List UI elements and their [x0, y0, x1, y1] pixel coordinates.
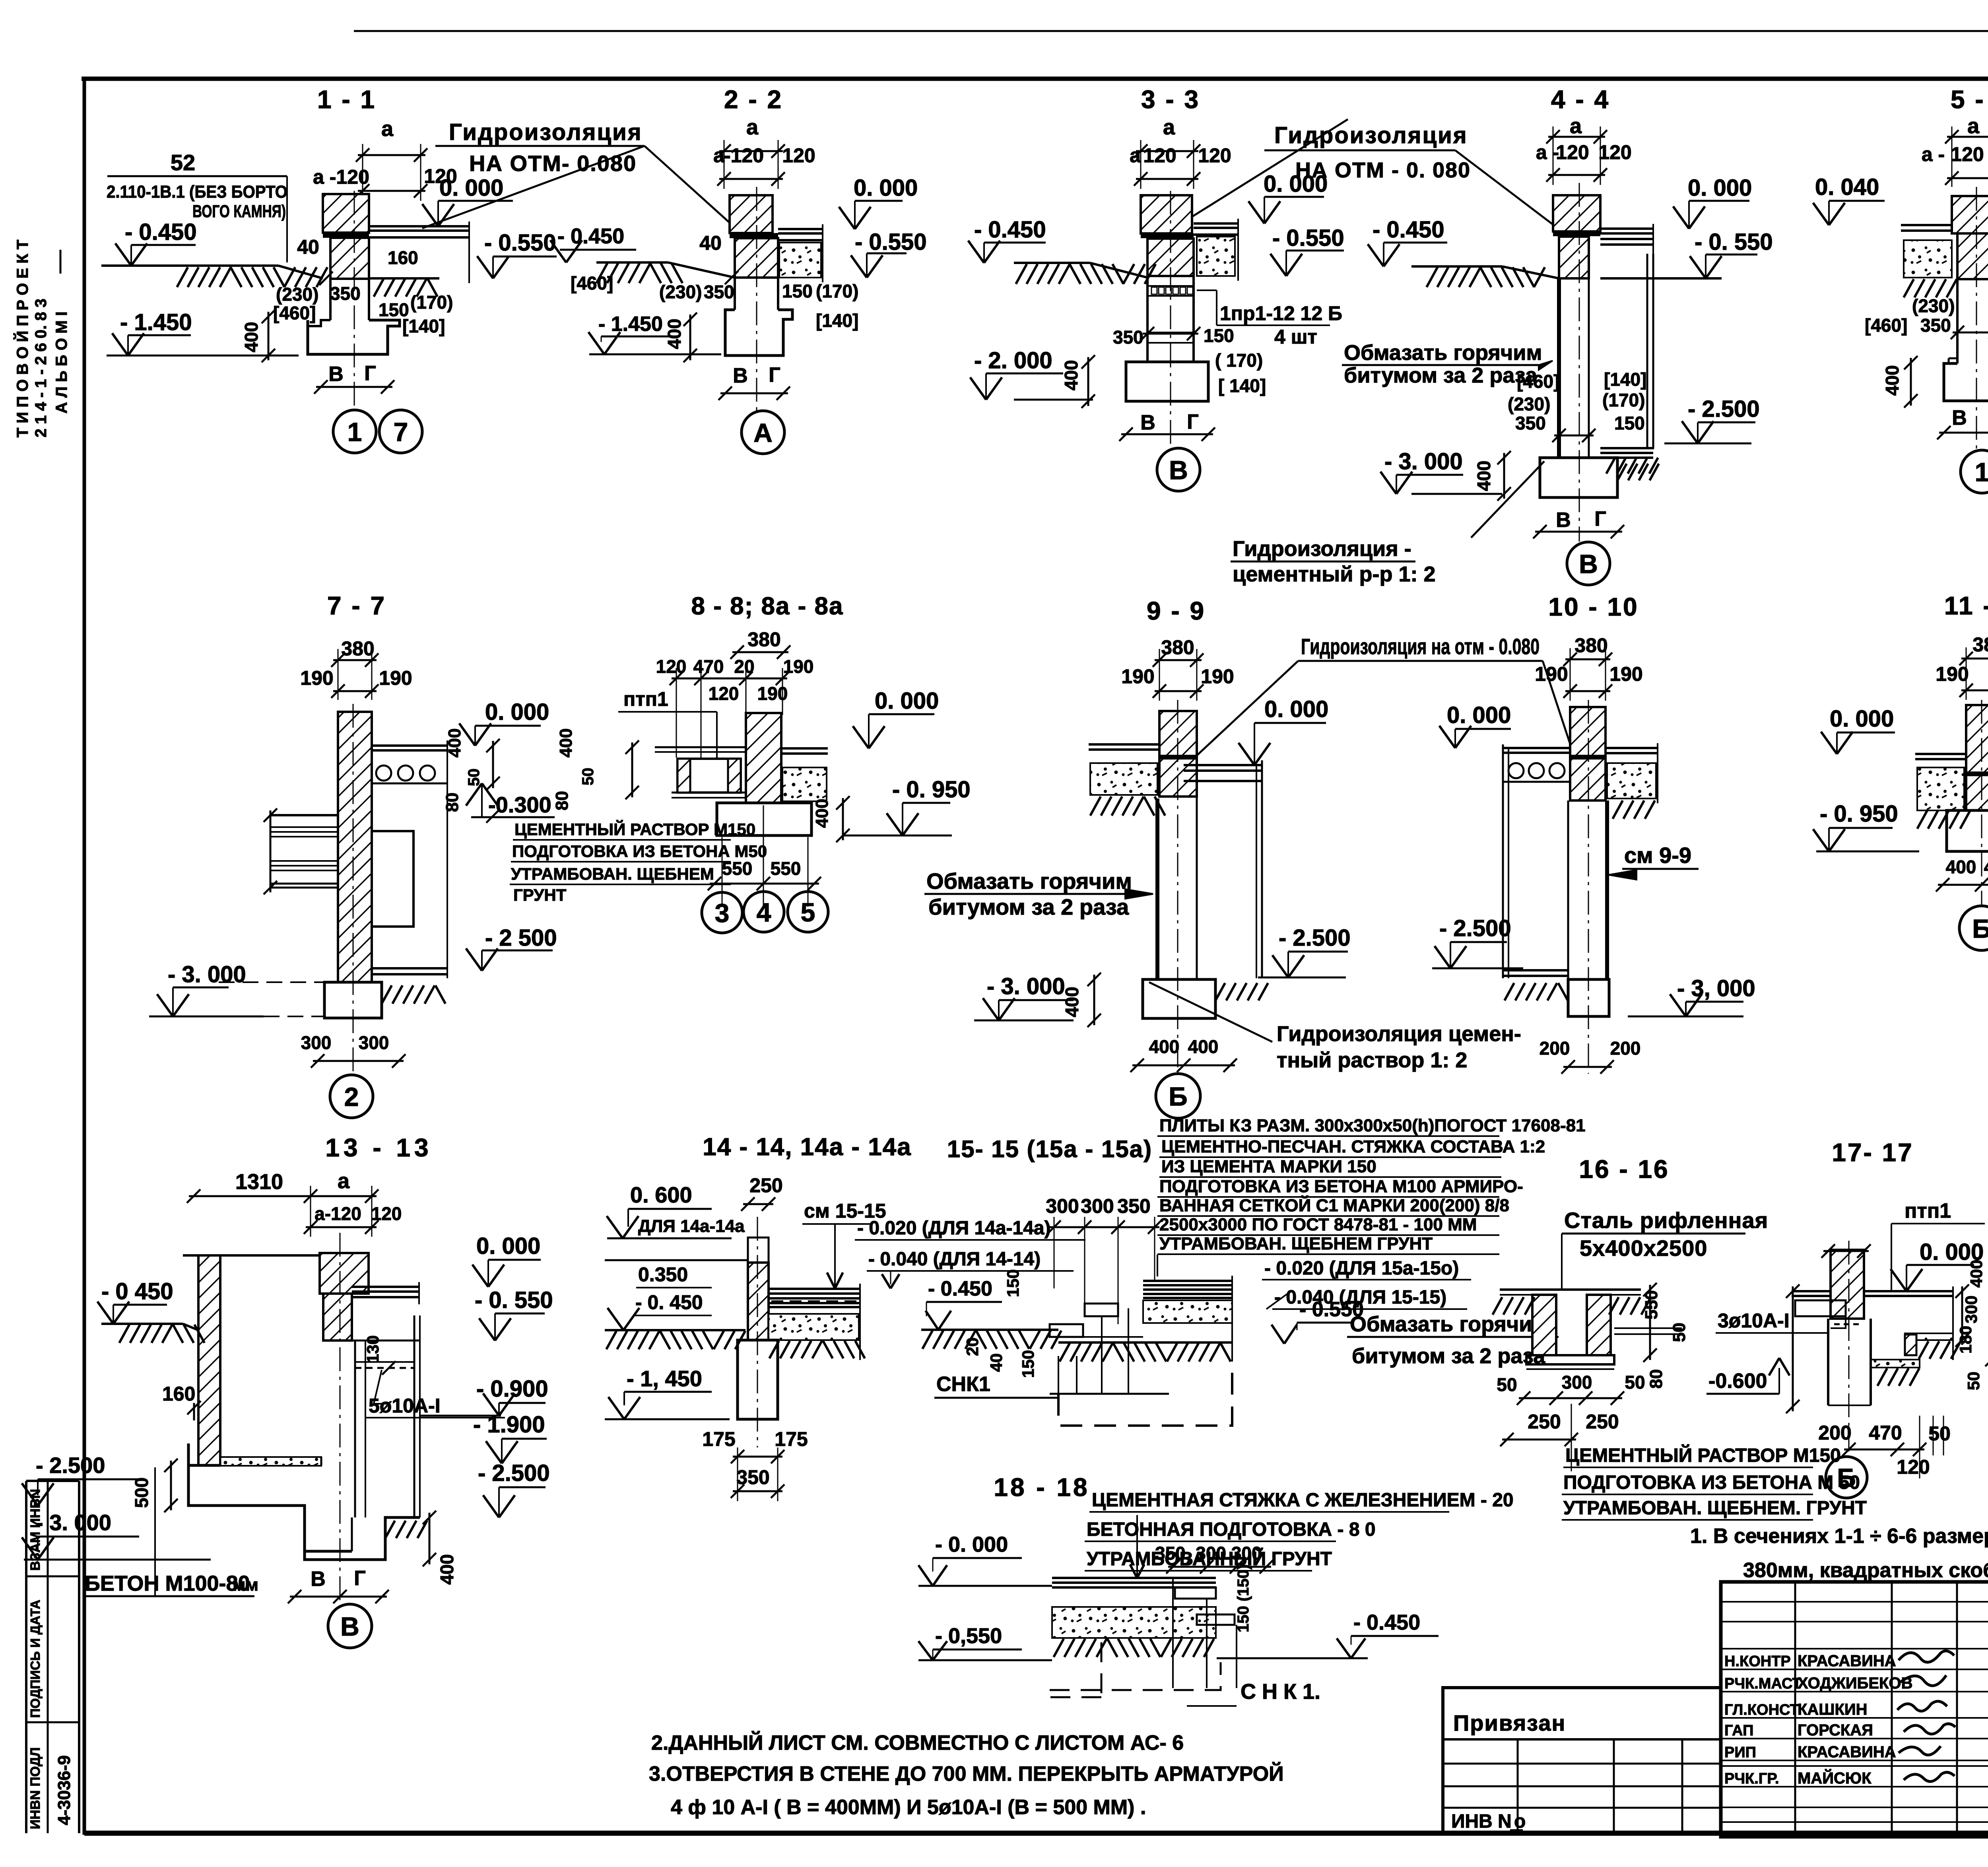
svg-text:В: В	[1952, 406, 1967, 429]
svg-text:5ø10А-I: 5ø10А-I	[369, 1395, 441, 1417]
svg-text:350: 350	[704, 282, 734, 302]
svg-text:400: 400	[1062, 987, 1082, 1017]
1-1 level -1.450 left	[128, 334, 191, 336]
4-4 footing	[1540, 458, 1617, 497]
svg-text:- 1.900: - 1.900	[473, 1412, 545, 1438]
svg-text:ГРУНТ: ГРУНТ	[513, 886, 567, 904]
8-8 right slab concrete	[781, 747, 828, 750]
svg-text:250: 250	[1586, 1410, 1619, 1433]
18-18 dashed box	[1050, 1642, 1101, 1697]
svg-text:5 - 5: 5 - 5	[1951, 85, 1988, 114]
svg-text:КРАСАВИНА: КРАСАВИНА	[1798, 1743, 1896, 1761]
5-5 ground hatch under slabs	[1904, 279, 1957, 297]
svg-text:3ø10А-I: 3ø10А-I	[1718, 1309, 1790, 1332]
svg-text:см 9-9: см 9-9	[1624, 843, 1691, 868]
svg-text:400: 400	[437, 1554, 457, 1585]
svg-text:битумом за 2 раза: битумом за 2 раза	[928, 894, 1129, 919]
svg-text:2: 2	[344, 1082, 359, 1111]
svg-text:400: 400	[241, 322, 262, 352]
10-10 left channel wall	[1502, 744, 1504, 978]
section 8-8	[510, 593, 971, 933]
svg-text:500: 500	[131, 1477, 152, 1508]
svg-text:150: 150	[1004, 1269, 1022, 1297]
svg-text:160: 160	[162, 1383, 195, 1405]
svg-text:120: 120	[782, 144, 815, 167]
svg-text:[460]: [460]	[1517, 371, 1559, 392]
node circle 1 of 5-5	[1961, 450, 1988, 493]
svg-text:КРАСАВИНА: КРАСАВИНА	[1798, 1652, 1896, 1670]
svg-text:150: 150	[1019, 1350, 1037, 1378]
svg-text:13 - 13: 13 - 13	[325, 1133, 432, 1162]
svg-text:0. 000: 0. 000	[854, 175, 918, 201]
svg-text:50: 50	[1497, 1374, 1517, 1395]
svg-text:Б: Б	[1169, 1082, 1187, 1111]
svg-text:ХОДЖИБЕКОВ: ХОДЖИБЕКОВ	[1798, 1675, 1912, 1692]
svg-text:а -120: а -120	[313, 166, 369, 188]
9-9 wall (hatched)	[1159, 711, 1197, 797]
svg-text:Б: Б	[1972, 914, 1988, 943]
node circle B of 3-3	[1157, 448, 1200, 491]
svg-text:380: 380	[341, 637, 374, 660]
1-1 ground hatch under slab	[374, 278, 437, 297]
13-13 left pit wall (hatched)	[198, 1255, 220, 1465]
svg-text:а: а	[713, 144, 725, 167]
16-16 ground hatch sides	[1493, 1297, 1534, 1315]
svg-text:175: 175	[775, 1428, 808, 1450]
node circle B of 4-4	[1567, 542, 1610, 585]
svg-text:0. 000: 0. 000	[439, 175, 503, 201]
svg-text:2.ДАННЫЙ ЛИСТ СМ. СОВМЕСТНО: 2.ДАННЫЙ ЛИСТ СМ. СОВМЕСТНО С ЛИСТОМ АС-…	[651, 1731, 1184, 1754]
4-4 wall above ground (hatched)	[1553, 195, 1600, 231]
4-4 waterproofing line	[1553, 231, 1600, 236]
17-17 left vertical dim	[1792, 1286, 1794, 1411]
svg-text:40: 40	[987, 1353, 1006, 1372]
3-3 waterproofing line	[1141, 233, 1194, 238]
svg-text:СНК1: СНК1	[936, 1373, 990, 1396]
13-13 mesh band in channel	[355, 1361, 414, 1363]
node circle B of 9-9	[1156, 1074, 1200, 1118]
7-7 channel slabs left	[270, 814, 338, 816]
5-5 level 0.040 left	[1829, 200, 1885, 202]
svg-text:40: 40	[297, 236, 319, 258]
13-13 pit floor speckled	[220, 1457, 321, 1466]
node circle 7	[379, 410, 422, 453]
node circle B of 11-11	[1959, 906, 1988, 950]
18-18 channel steps	[1175, 1587, 1216, 1599]
svg-text:В: В	[340, 1612, 359, 1641]
13-13 top edge line with break	[183, 1254, 320, 1257]
2-2 footing	[725, 310, 792, 356]
9-9 waterproof thick mark	[1159, 755, 1197, 760]
svg-text:0. 000: 0. 000	[1447, 702, 1511, 728]
section 18-18	[918, 1473, 1514, 1706]
13-13 pit base outline	[188, 1443, 352, 1551]
16-16 bottom plate	[1526, 1355, 1614, 1364]
title block signature columns	[1794, 1582, 1796, 1837]
13-13 level -1.900 right	[502, 1438, 547, 1440]
7-7 level -0.300 right	[482, 816, 555, 818]
svg-text:-0.300: -0.300	[488, 792, 551, 817]
svg-text:[460]: [460]	[1865, 315, 1907, 336]
svg-text:В: В	[1169, 455, 1188, 485]
svg-text:- 0.450: - 0.450	[1373, 217, 1444, 243]
svg-text:4: 4	[757, 898, 771, 927]
svg-text:Г: Г	[769, 363, 780, 387]
section 16-16	[1493, 1155, 1867, 1520]
svg-text:-0.600: -0.600	[1708, 1370, 1767, 1393]
svg-text:250: 250	[1528, 1410, 1561, 1433]
note 1 about dimensions in brackets	[1690, 1525, 1988, 1582]
svg-text:- 0.040 (ДЛЯ 14-14): - 0.040 (ДЛЯ 14-14)	[868, 1249, 1041, 1270]
svg-text:а: а	[338, 1169, 350, 1193]
svg-text:- 2.500: - 2.500	[1439, 915, 1511, 941]
1-1 datum line -1.450	[107, 355, 299, 357]
svg-text:Б: Б	[1837, 1463, 1856, 1492]
10-10 level -2.500 left	[1450, 941, 1507, 943]
svg-text:1пр1-12 12 Б: 1пр1-12 12 Б	[1220, 302, 1342, 324]
svg-text:( 170): ( 170)	[1215, 350, 1263, 371]
svg-text:Обмазать горячим: Обмазать горячим	[1350, 1312, 1548, 1336]
svg-text:БЕТОН М100-80: БЕТОН М100-80	[85, 1572, 250, 1595]
svg-text:- 0.450: - 0.450	[557, 224, 624, 248]
13-13 right floor slab	[352, 1286, 419, 1288]
svg-text:5х400х2500: 5х400х2500	[1580, 1236, 1707, 1261]
svg-text:3 - 3: 3 - 3	[1141, 85, 1200, 114]
svg-text:300: 300	[1562, 1372, 1592, 1393]
17-17 wall (hatched)	[1831, 1250, 1864, 1319]
13-13 level -2.500 right	[499, 1486, 546, 1488]
13-13 level -0.450 left	[113, 1304, 167, 1306]
17-17 stem	[1827, 1319, 1829, 1405]
svg-text:1. В сечениях 1-1 ÷ 6-6 разме: 1. В сечениях 1-1 ÷ 6-6 размеры в круглы…	[1690, 1525, 1988, 1548]
svg-text:БЕТОННАЯ ПОДГОТОВКА - 8 0: БЕТОННАЯ ПОДГОТОВКА - 8 0	[1087, 1519, 1376, 1540]
svg-text:а: а	[381, 117, 394, 141]
svg-text:11 - 11: 11 - 11	[1944, 591, 1988, 620]
7-7 channel bottom right	[372, 967, 447, 969]
title block	[1721, 1582, 1988, 1843]
svg-text:200: 200	[1610, 1038, 1641, 1059]
svg-text:190: 190	[1121, 665, 1154, 688]
15-15 channel verticals	[1058, 1356, 1059, 1394]
svg-text:1: 1	[348, 417, 362, 447]
4-4 wall below waterproofing	[1559, 237, 1589, 278]
svg-text:0. 000: 0. 000	[875, 688, 939, 714]
2-2 level 0.000 right	[855, 200, 903, 202]
18-18 floor slab	[1052, 1577, 1216, 1579]
svg-text:1310: 1310	[235, 1170, 283, 1194]
svg-text:ИНВN ПОДЛ: ИНВN ПОДЛ	[28, 1747, 43, 1829]
svg-text:ВАННАЯ СЕТКОЙ С1 МАРКИ 200(200: ВАННАЯ СЕТКОЙ С1 МАРКИ 200(200) 8/8	[1159, 1195, 1509, 1215]
svg-text:400: 400	[1882, 365, 1903, 396]
7-7 level 0.000 right	[475, 725, 541, 727]
svg-text:Г: Г	[364, 362, 376, 385]
5-5 stem below ground	[1956, 279, 1959, 363]
3-3 footing	[1126, 362, 1208, 401]
svg-text:ПОДГОТОВКА ИЗ БЕТОНА М100 АРМИ: ПОДГОТОВКА ИЗ БЕТОНА М100 АРМИРО-	[1159, 1177, 1523, 1196]
svg-text:380мм, квадратных скобках-для: 380мм, квадратных скобках-для стен толщи…	[1743, 1559, 1988, 1582]
svg-text:В: В	[328, 363, 344, 386]
node circle 1	[333, 410, 376, 453]
svg-text:190: 190	[1936, 663, 1969, 685]
5-5 wall through slab	[1957, 233, 1988, 279]
svg-text:- 2 500: - 2 500	[485, 925, 557, 951]
svg-text:ЦЕМЕНТНЫЙ РАСТВОР М150: ЦЕМЕНТНЫЙ РАСТВОР М150	[514, 820, 755, 839]
15-15 dashed box	[1058, 1362, 1232, 1426]
svg-text:- 0.550: - 0.550	[1272, 225, 1344, 251]
3-3 level 0.000 right	[1264, 196, 1324, 198]
svg-text:В: В	[1556, 509, 1571, 532]
svg-text:400: 400	[445, 729, 464, 758]
section 14-14	[605, 1133, 1085, 1501]
svg-text:В: В	[1579, 549, 1598, 579]
svg-text:400: 400	[556, 729, 576, 758]
svg-text:190: 190	[1535, 663, 1568, 685]
svg-text:50: 50	[579, 768, 597, 786]
svg-text:120: 120	[371, 1203, 402, 1224]
4-4 level 0.000 right	[1689, 200, 1749, 202]
svg-text:А Л Ь Б О М I: А Л Ь Б О М I	[53, 311, 70, 414]
svg-text:- 2.500: - 2.500	[36, 1453, 105, 1478]
svg-text:200: 200	[1818, 1422, 1851, 1444]
svg-text:5: 5	[801, 898, 815, 927]
7-7 window recess in wall	[372, 831, 414, 927]
17-17 right floor	[1864, 1290, 1953, 1292]
svg-text:Гидроизоляция: Гидроизоляция	[449, 119, 643, 145]
3-3 wall above ground (hatched)	[1141, 195, 1192, 233]
svg-text:В: В	[733, 364, 748, 387]
svg-text:550: 550	[722, 858, 753, 879]
16-16 right wall (hatched)	[1587, 1295, 1611, 1355]
8-8 level 0.000 right	[869, 713, 934, 715]
svg-text:ПОДГОТОВКА ИЗ БЕТОНА М 50: ПОДГОТОВКА ИЗ БЕТОНА М 50	[1563, 1472, 1860, 1493]
svg-text:Гидроизоляция на отм - 0.080: Гидроизоляция на отм - 0.080	[1301, 634, 1540, 659]
svg-text:УТРАМБОВАН. ЩЕБНЕМ. ГРУНТ: УТРАМБОВАН. ЩЕБНЕМ. ГРУНТ	[1563, 1498, 1867, 1519]
10-10 channel bottom left	[1503, 969, 1568, 971]
svg-text:80: 80	[443, 793, 462, 812]
svg-text:-120: -120	[724, 144, 764, 167]
5-5 footing	[1944, 363, 1988, 401]
svg-text:(230): (230)	[659, 282, 702, 302]
svg-text:14 - 14, 14а - 14а: 14 - 14, 14а - 14а	[703, 1133, 911, 1161]
sheet top thin line	[354, 30, 1988, 32]
svg-text:80: 80	[1646, 1369, 1666, 1389]
svg-text:- 0. 450: - 0. 450	[635, 1291, 703, 1313]
svg-text:50: 50	[465, 769, 483, 787]
svg-text:4 шт: 4 шт	[1274, 326, 1317, 348]
left stamp strip	[26, 1480, 79, 1482]
svg-text:Обмазать горячим: Обмазать горячим	[1344, 341, 1542, 365]
2-2 foundation stem	[734, 278, 736, 310]
svg-text:- 0.450: - 0.450	[974, 217, 1046, 243]
svg-text:150: 150	[1204, 325, 1234, 346]
node circle 4	[744, 892, 784, 932]
8-8 level -0.950 right	[903, 802, 950, 804]
svg-text:УТРАМБОВАН. ЩЕБНЕМ: УТРАМБОВАН. ЩЕБНЕМ	[511, 865, 714, 883]
17-17 level 0.000	[1906, 1264, 1974, 1266]
svg-text:0. 040: 0. 040	[1815, 174, 1879, 200]
10-10 stem (bitumen right)	[1567, 800, 1569, 979]
svg-text:7: 7	[394, 417, 408, 447]
sheet frame	[82, 77, 1988, 81]
5-5 left floor slab	[1901, 224, 1952, 226]
15-15 floor layers right	[1143, 1280, 1232, 1282]
svg-text:350: 350	[1117, 1195, 1150, 1217]
3-3 below ground wall with mesh bands	[1146, 276, 1149, 362]
10-10 level 0.000 left	[1455, 728, 1511, 730]
9-9 channel top slab right	[1184, 764, 1262, 766]
svg-text:350: 350	[1920, 315, 1951, 336]
svg-text:(170): (170)	[1602, 390, 1645, 410]
svg-text:- 0. 000: - 0. 000	[935, 1533, 1008, 1556]
svg-text:50: 50	[1928, 1422, 1951, 1445]
svg-text:400: 400	[1946, 857, 1976, 877]
4-4 floor slab right	[1600, 227, 1653, 230]
svg-text:птп1: птп1	[1905, 1199, 1951, 1222]
1-1 wall below waterproofing	[330, 238, 369, 279]
svg-text:4 - 4: 4 - 4	[1551, 85, 1610, 114]
2-2 wall below waterproofing	[735, 238, 778, 278]
svg-text:2 - 2: 2 - 2	[724, 85, 783, 114]
svg-text:380: 380	[1161, 636, 1194, 659]
svg-text:7 - 7: 7 - 7	[327, 591, 386, 620]
svg-text:Т И П О В О Й П Р О Е К Т: Т И П О В О Й П Р О Е К Т	[13, 240, 31, 437]
svg-text:380: 380	[1972, 633, 1988, 656]
svg-text:НА ОТМ- 0.080: НА ОТМ- 0.080	[469, 151, 637, 176]
svg-text:2.110-1В.1 (БЕЗ БОРТО: 2.110-1В.1 (БЕЗ БОРТО	[107, 182, 287, 202]
section 17-17	[1706, 1138, 1988, 1498]
svg-text:17- 17: 17- 17	[1832, 1138, 1913, 1167]
svg-text:150: 150	[1614, 413, 1645, 433]
10-10 waterproof thick mark	[1570, 755, 1606, 760]
title block signatures (squiggles)	[1897, 1651, 1955, 1782]
svg-text:- 0.550: - 0.550	[855, 229, 927, 255]
svg-text:- 3. 000: - 3. 000	[36, 1510, 111, 1535]
svg-text:2 1 4 - 1 - 2 6 0. 8 3: 2 1 4 - 1 - 2 6 0. 8 3	[32, 299, 50, 437]
svg-text:3: 3	[715, 898, 730, 928]
svg-text:Гидроизоляция цемен-: Гидроизоляция цемен-	[1277, 1022, 1521, 1046]
7-7 wall (hatched tall)	[338, 712, 372, 982]
4-4 level -0.550 right	[1706, 254, 1757, 256]
svg-text:КАШКИН: КАШКИН	[1798, 1701, 1868, 1718]
1-1 level -0.550 right	[493, 256, 557, 258]
8-8 wall (hatched)	[746, 713, 781, 803]
svg-text:Гидроизоляция: Гидроизоляция	[1274, 122, 1468, 148]
svg-text:- 0 450: - 0 450	[101, 1278, 173, 1304]
svg-text:150 (150): 150 (150)	[1235, 1564, 1252, 1632]
svg-text:[140]: [140]	[1604, 369, 1646, 390]
svg-text:380: 380	[747, 628, 780, 651]
11-11 left floor slab	[1915, 753, 1966, 755]
svg-text:- 0.020 (ДЛЯ 15а-15о): - 0.020 (ДЛЯ 15а-15о)	[1264, 1258, 1459, 1279]
svg-text:(230): (230)	[1912, 295, 1955, 316]
svg-text:400: 400	[1474, 460, 1494, 491]
svg-text:- 0.450: - 0.450	[1353, 1611, 1420, 1634]
hydro note row2 middle: Гидроизоляция на отм-0.080	[1198, 634, 1574, 755]
section 11-11	[1813, 591, 1988, 950]
svg-text:2500х3000 ПО ГОСТ 8478-81 - 1: 2500х3000 ПО ГОСТ 8478-81 - 100 ММ	[1159, 1215, 1477, 1234]
obmazat note right of 15-15	[1347, 1312, 1559, 1368]
svg-text:50: 50	[1670, 1323, 1689, 1342]
svg-text:- 3. 000: - 3. 000	[1384, 449, 1463, 474]
hydro note between 3-3 and 4-4	[1192, 119, 1563, 232]
svg-text:0. 000: 0. 000	[1830, 706, 1894, 732]
svg-text:350: 350	[736, 1466, 769, 1488]
svg-text:битумом за 2 раза: битумом за 2 раза	[1344, 363, 1538, 387]
15-15 channel plates	[1085, 1304, 1118, 1316]
section 3-3	[968, 85, 1344, 491]
17-17 left slab and PTP plate	[1792, 1290, 1831, 1292]
4-4 hydro leader bottom	[1471, 461, 1544, 538]
svg-text:80: 80	[552, 791, 572, 810]
svg-text:Гидроизоляция -: Гидроизоляция -	[1233, 537, 1411, 561]
14-14 ground line left	[605, 1329, 745, 1331]
17-17 step down right	[1905, 1333, 1953, 1340]
svg-text:птп1: птп1	[623, 688, 668, 710]
svg-text:а: а	[1967, 114, 1980, 138]
4-4 channel wall right	[1646, 254, 1648, 448]
svg-text:350, 300 300: 350, 300 300	[1155, 1543, 1262, 1564]
svg-text:ЦЕМЕНТНАЯ СТЯЖКА С ЖЕЛЕЗНЕНИЕМ: ЦЕМЕНТНАЯ СТЯЖКА С ЖЕЛЕЗНЕНИЕМ - 20	[1092, 1490, 1514, 1511]
10-10 level -3.000 right	[1686, 1001, 1743, 1003]
1-1 level -0.450 left	[131, 244, 196, 246]
svg-text:- 0. 950: - 0. 950	[1820, 801, 1898, 827]
3-3 level -0.450 left	[984, 242, 1046, 244]
svg-text:0. 000: 0. 000	[485, 699, 549, 725]
4-4 ground line left	[1411, 265, 1502, 268]
svg-text:ПОДПИСЬ И ДАТА: ПОДПИСЬ И ДАТА	[28, 1600, 43, 1718]
svg-text:470: 470	[693, 656, 724, 677]
13-13 right wall upper (hatched)	[320, 1253, 369, 1294]
13-13 right wall lower (hatched)	[323, 1294, 352, 1341]
2-2 wall above ground (hatched)	[730, 195, 773, 233]
svg-text:(230): (230)	[276, 284, 318, 305]
svg-text:0. 000: 0. 000	[1264, 696, 1328, 722]
14-14 stem below ground	[738, 1340, 778, 1419]
svg-text:120: 120	[1897, 1456, 1930, 1478]
svg-text:- 0. 550: - 0. 550	[475, 1287, 553, 1313]
svg-text:190: 190	[300, 667, 333, 689]
16-16 left wall (hatched)	[1532, 1295, 1556, 1355]
svg-text:- 1, 450: - 1, 450	[627, 1366, 702, 1391]
svg-text:1 - 1: 1 - 1	[317, 85, 376, 114]
svg-text:180: 180	[1956, 1326, 1975, 1354]
svg-text:190: 190	[1609, 663, 1642, 685]
svg-text:40: 40	[699, 232, 722, 254]
svg-text:300: 300	[301, 1032, 332, 1053]
9-9 footing	[1143, 979, 1215, 1018]
hydro note between 1-1 and 2-2: Гидроизоляция на отм-0.080	[422, 119, 730, 228]
svg-text:Г: Г	[1187, 410, 1198, 433]
11-11 waterproof thick mark	[1966, 771, 1988, 776]
svg-text:0. 000: 0. 000	[476, 1233, 540, 1259]
11-11 footing	[1947, 810, 1988, 851]
svg-text:[ 140]: [ 140]	[1218, 375, 1266, 396]
15-15 ground line left	[921, 1329, 1058, 1331]
1-1 wall above ground (hatched)	[323, 194, 369, 233]
svg-text:РИП: РИП	[1724, 1744, 1756, 1761]
svg-text:С Н К 1.: С Н К 1.	[1241, 1680, 1320, 1704]
svg-text:175: 175	[702, 1428, 735, 1450]
svg-text:(170): (170)	[410, 292, 453, 313]
svg-text:400: 400	[1149, 1036, 1180, 1057]
svg-text:18 - 18: 18 - 18	[994, 1473, 1089, 1502]
svg-text:ВОГО КАМНЯ): ВОГО КАМНЯ)	[192, 202, 286, 221]
svg-text:ЦЕМЕНТНО-ПЕСЧАН. СТЯЖКА СОСТАВ: ЦЕМЕНТНО-ПЕСЧАН. СТЯЖКА СОСТАВА 1:2	[1161, 1137, 1545, 1156]
svg-text:120: 120	[1198, 144, 1231, 167]
3-3 ground line left	[1014, 262, 1090, 264]
svg-text:1: 1	[1975, 457, 1988, 487]
10-10 wall (hatched)	[1570, 707, 1606, 800]
